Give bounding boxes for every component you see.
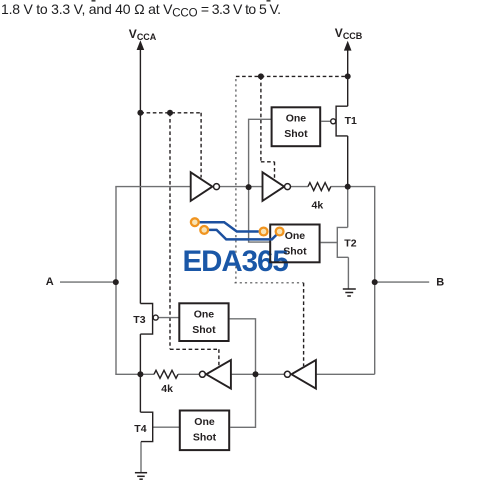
inverter A2 (263, 172, 285, 201)
wire junction to right bus corner (348, 187, 375, 375)
VCCA rail wire (139, 47, 141, 304)
resistor R2 4k (154, 370, 178, 378)
wire resistor R1 to junction (331, 186, 348, 188)
node B terminal junction (372, 279, 378, 285)
inverter B2 (206, 360, 231, 389)
transistor T3 (140, 304, 152, 375)
one-shot U1 (272, 107, 321, 146)
transistor T2 (337, 227, 348, 257)
svg-text:One: One (194, 416, 215, 428)
node row2 one-shot tap (253, 371, 259, 377)
ground under T2 (343, 289, 356, 296)
svg-text:T2: T2 (344, 237, 356, 249)
svg-text:T3: T3 (133, 314, 145, 326)
watermark logo traces (200, 222, 277, 239)
svg-text:Shot: Shot (192, 324, 216, 336)
wire T2 source to ground (347, 257, 349, 289)
svg-text:B: B (436, 276, 444, 288)
inverter B1 (291, 360, 316, 389)
watermark logo pads (191, 218, 284, 235)
svg-text:4k: 4k (312, 199, 324, 211)
node VCCA dash branch (167, 110, 173, 116)
dashed VCCA power tap row (140, 113, 219, 366)
node VCCB dash branch (258, 73, 264, 79)
node B-side driver junction (345, 184, 351, 190)
wire left bus from row1 to row2 (115, 187, 117, 375)
wire T4 source to ground (140, 442, 142, 473)
wire inverter4 input to inverter3 bubble (231, 373, 284, 375)
wire one-shot U1 gate drive to T1 (321, 120, 330, 122)
node VCCB dash junction (345, 73, 351, 79)
wire one-shot U3 gate drive to T3 (158, 317, 179, 319)
svg-text:A: A (46, 276, 54, 288)
svg-text:Shot: Shot (193, 431, 217, 443)
inverter A1 (191, 172, 213, 201)
node VCCA dash junction (137, 110, 143, 116)
wire B terminal (375, 281, 430, 283)
wire one-shot U2 gate drive to T2 (321, 242, 338, 244)
wire one-shot U4 input tap (230, 374, 255, 427)
one-shot U2 (270, 225, 319, 263)
cropped text remnant marks (92, 0, 96, 2)
wire one-shot U2 input tap (249, 187, 271, 242)
svg-text:One: One (286, 113, 307, 125)
ground under T4 (135, 473, 147, 480)
node A-side driver junction (137, 371, 143, 377)
wire row1 input segment (115, 186, 190, 188)
transistor T1 (336, 106, 348, 186)
svg-text:One: One (194, 309, 215, 321)
VCCB rail wire (347, 48, 349, 107)
wire one-shot U3 input tap (230, 319, 256, 375)
wire inverter2 bubble to resistor R1 (291, 186, 309, 188)
svg-text:One: One (285, 230, 306, 242)
one-shot U4 (180, 411, 229, 451)
VCCB arrow (344, 41, 352, 51)
wire one-shot U4 gate drive to T4 (153, 426, 180, 428)
transistor T4 (140, 374, 152, 441)
node VCCA label (129, 27, 157, 42)
wire A terminal (60, 281, 116, 283)
wire one-shot U1 input tap (249, 119, 272, 187)
resistor R1 4k (308, 183, 331, 191)
wire inverter1 to inverter2 (220, 186, 263, 188)
one-shot U3 (179, 303, 228, 341)
dashed VCCB fine-dotted branch (235, 79, 304, 283)
svg-text:1.8 V to 3.3 V, and 40 Ω at VC: 1.8 V to 3.3 V, and 40 Ω at VCCO = 3.3 V… (1, 1, 280, 20)
caption text (1, 1, 280, 20)
VCCA arrow (137, 40, 145, 50)
svg-text:T1: T1 (345, 115, 357, 127)
svg-text:4k: 4k (161, 383, 173, 395)
node A terminal junction (113, 279, 119, 285)
node row1 one-shot tap (246, 184, 252, 190)
wire inverter3 input from right bus (316, 373, 375, 375)
svg-text:Shot: Shot (284, 128, 308, 140)
wire resistor R2 to inverter4 bubble (178, 373, 199, 375)
svg-text:Shot: Shot (283, 245, 307, 257)
dashed VCCB power tap row (236, 76, 348, 366)
wire T2 drain from junction (347, 187, 349, 228)
svg-text:T4: T4 (134, 423, 146, 435)
node VCCB label (335, 26, 363, 41)
wire row2 from left bus corner to resistor R2 (115, 373, 154, 375)
